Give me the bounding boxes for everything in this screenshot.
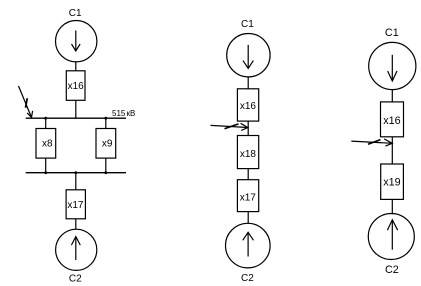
svg-text:C1: C1 xyxy=(385,27,399,39)
svg-text:C2: C2 xyxy=(385,264,399,276)
svg-text:x19: x19 xyxy=(383,177,400,189)
svg-text:x18: x18 xyxy=(240,149,257,160)
svg-text:x16: x16 xyxy=(68,81,85,92)
svg-text:x16: x16 xyxy=(383,115,400,127)
svg-text:C2: C2 xyxy=(241,273,254,284)
svg-text:x9: x9 xyxy=(102,138,113,149)
svg-text:C1: C1 xyxy=(241,19,254,30)
svg-text:x17: x17 xyxy=(67,200,84,211)
svg-text:515кВ: 515кВ xyxy=(112,109,135,118)
svg-text:x8: x8 xyxy=(42,138,53,149)
svg-text:C1: C1 xyxy=(69,8,82,19)
svg-text:C2: C2 xyxy=(69,273,82,284)
svg-text:x17: x17 xyxy=(240,193,257,204)
svg-text:x16: x16 xyxy=(240,101,257,112)
